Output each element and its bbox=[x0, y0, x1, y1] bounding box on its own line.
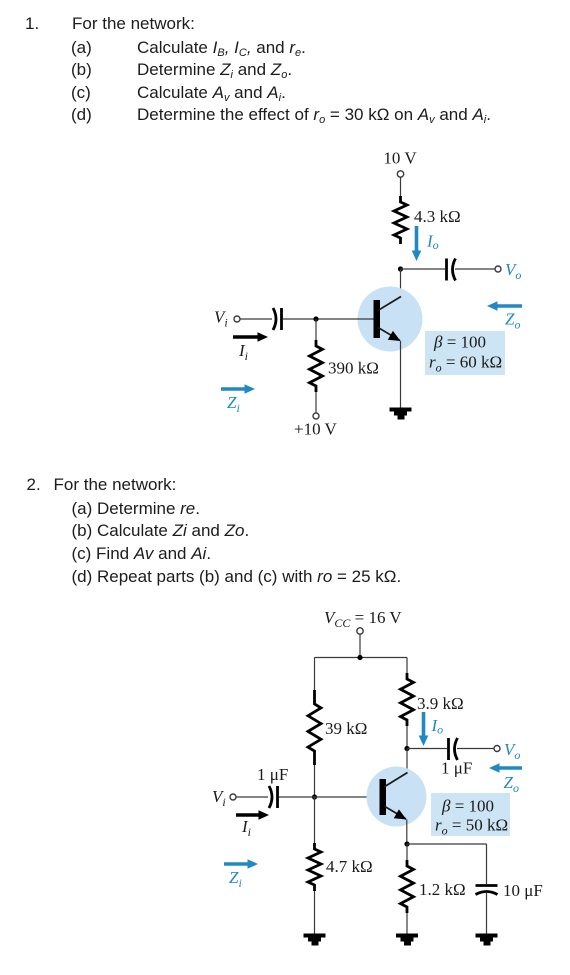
wire node to output cap bbox=[401, 268, 446, 270]
transistor Q1 collector stroke bbox=[378, 297, 401, 311]
terminal Vo bbox=[495, 266, 501, 272]
wire base segment cap to bar bbox=[283, 318, 374, 320]
svg-text:Zi: Zi bbox=[229, 868, 242, 890]
ground R5 bbox=[304, 934, 326, 946]
svg-text:1 μF: 1 μF bbox=[257, 765, 288, 784]
problem 2 item a bbox=[72, 500, 201, 517]
impedance arrow Zi bbox=[221, 384, 255, 394]
node emitter 2 bbox=[404, 841, 409, 846]
terminal 10V bbox=[397, 171, 403, 177]
svg-text:1 μF: 1 μF bbox=[441, 759, 472, 778]
capacitor output 1uF bbox=[449, 738, 458, 760]
wire R5 to ground bbox=[314, 891, 316, 934]
resistor R2 390 kOhm bbox=[310, 340, 323, 392]
svg-text:Vo: Vo bbox=[504, 740, 520, 762]
svg-text:β = 100: β = 100 bbox=[433, 333, 486, 352]
wire bypass cap to ground bbox=[486, 893, 488, 934]
wire cap to Vo terminal bbox=[455, 268, 495, 270]
wire VCC down bbox=[359, 635, 361, 658]
problem 2 item d bbox=[72, 568, 402, 585]
current arrow Io 2 bbox=[419, 712, 429, 746]
wire cap to Vo 2 bbox=[457, 748, 494, 750]
wire R4 to collector node bbox=[406, 726, 408, 749]
resistor R3 39 kOhm bbox=[308, 690, 321, 765]
ground CE bbox=[476, 934, 498, 946]
transistor Q1 shaded circle bbox=[358, 287, 423, 352]
svg-text:10 V: 10 V bbox=[383, 149, 417, 168]
wire down to bypass cap bbox=[486, 844, 488, 884]
wire R6 to ground bbox=[406, 913, 408, 934]
node collector top bbox=[398, 266, 403, 271]
wire collector vertical 2 bbox=[406, 749, 408, 774]
current arrow Ii 2 bbox=[236, 810, 269, 820]
transistor Q1 emitter stroke with arrow bbox=[378, 328, 401, 342]
svg-text:39 kΩ: 39 kΩ bbox=[325, 719, 367, 738]
node collector 2 bbox=[404, 746, 409, 751]
resistor R1 4.3 kOhm bbox=[394, 196, 407, 244]
parameter box Q2 bbox=[431, 793, 510, 836]
ground R6 bbox=[396, 934, 418, 946]
problem 2 item b bbox=[72, 522, 250, 539]
transistor Q2 shaded circle bbox=[367, 767, 427, 827]
wire R2 to +10V terminal bbox=[315, 392, 317, 413]
wire collector vertical bbox=[400, 269, 402, 297]
wire base node down to R2 bbox=[315, 319, 317, 341]
impedance arrow Zo bbox=[487, 301, 522, 311]
wire Vi terminal to cap bbox=[240, 318, 272, 320]
wire emitter rail right bbox=[407, 843, 487, 845]
problem 2 heading bbox=[27, 476, 41, 493]
svg-text:β = 100: β = 100 bbox=[441, 797, 494, 816]
terminal Vi bbox=[234, 316, 240, 322]
current arrow Ii bbox=[233, 332, 268, 342]
resistor R4 3.9 kOhm bbox=[401, 673, 414, 726]
svg-text:Zo: Zo bbox=[504, 773, 519, 795]
wire emitter to node 2 bbox=[406, 820, 408, 845]
problem 1 item c bbox=[71, 84, 91, 101]
wire rail down right bbox=[406, 658, 408, 674]
node base bbox=[313, 316, 318, 321]
svg-text:+10 V: +10 V bbox=[294, 420, 338, 439]
parameter box Q1 bbox=[425, 331, 505, 375]
wire R3 to base node bbox=[314, 765, 316, 797]
wire rail down left bbox=[314, 658, 316, 691]
transistor Q1 base bar bbox=[374, 300, 381, 338]
terminal Vo 2 bbox=[494, 746, 500, 752]
resistor R5 4.7 kOhm bbox=[308, 843, 321, 891]
problem 1 item b bbox=[71, 61, 92, 78]
svg-text:VCC = 16 V: VCC = 16 V bbox=[324, 608, 402, 630]
problem 2 item c bbox=[72, 545, 212, 562]
capacitor input C1 bbox=[273, 308, 282, 330]
node VCC rail bbox=[357, 655, 362, 660]
capacitor input 1uF bbox=[269, 786, 278, 808]
wire base to bar bbox=[315, 796, 380, 798]
terminal +10V bbox=[313, 413, 319, 419]
terminal VCC bbox=[357, 628, 363, 634]
svg-text:Zi: Zi bbox=[227, 393, 240, 415]
ground Q1 emitter bbox=[390, 408, 412, 420]
wire Vi to input cap 2 bbox=[236, 796, 268, 798]
svg-text:Ii: Ii bbox=[238, 341, 248, 363]
wire base node down to R5 bbox=[314, 797, 316, 844]
problem 1 item a bbox=[71, 39, 92, 56]
terminal Vi 2 bbox=[230, 794, 236, 800]
svg-text:4.7 kΩ: 4.7 kΩ bbox=[326, 857, 373, 876]
capacitor CC output bbox=[447, 259, 456, 281]
problem 1 item d bbox=[71, 106, 92, 123]
svg-text:Vi: Vi bbox=[212, 787, 226, 809]
current arrow Io bbox=[412, 226, 422, 261]
wire input cap to base node bbox=[279, 796, 315, 798]
impedance arrow Zo 2 bbox=[489, 763, 522, 773]
transistor Q2 emitter stroke with arrow bbox=[384, 806, 407, 820]
svg-text:Ii: Ii bbox=[241, 817, 251, 839]
svg-text:1.2 kΩ: 1.2 kΩ bbox=[419, 880, 466, 899]
wire emitter to ground bbox=[400, 341, 402, 408]
transistor Q2 collector stroke bbox=[384, 773, 408, 788]
node base 2 bbox=[312, 794, 317, 799]
svg-text:Io: Io bbox=[431, 716, 444, 737]
svg-text:10 μF: 10 μF bbox=[503, 881, 543, 900]
resistor R6 1.2 kOhm bbox=[401, 860, 414, 913]
problem 1 heading bbox=[25, 15, 39, 32]
svg-text:Zo: Zo bbox=[505, 310, 520, 332]
svg-text:4.3 kΩ: 4.3 kΩ bbox=[414, 207, 461, 226]
impedance arrow Zi 2 bbox=[224, 859, 258, 869]
wire node to output cap 2 bbox=[407, 748, 447, 750]
svg-text:390 kΩ: 390 kΩ bbox=[328, 359, 379, 378]
svg-text:Vo: Vo bbox=[505, 260, 521, 282]
wire emitter node to R6 bbox=[406, 844, 408, 861]
svg-text:Io: Io bbox=[426, 232, 439, 253]
wire supply to R1 bbox=[400, 178, 402, 197]
svg-text:3.9 kΩ: 3.9 kΩ bbox=[417, 694, 464, 713]
svg-text:Vi: Vi bbox=[214, 308, 228, 330]
capacitor CE 10uF bbox=[476, 886, 498, 895]
transistor Q2 base bar bbox=[380, 779, 387, 815]
wire top rail bbox=[315, 657, 408, 659]
